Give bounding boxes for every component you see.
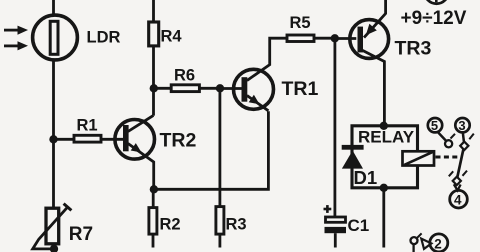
light arrow 2 bbox=[4, 41, 28, 50]
resistor R3 bbox=[216, 88, 224, 247]
resistor R6 bbox=[154, 85, 220, 92]
svg-text:5: 5 bbox=[431, 118, 438, 133]
transistor TR2 bbox=[115, 115, 155, 189]
svg-text:R3: R3 bbox=[226, 215, 247, 233]
node: TR2 emitter rail junction bbox=[150, 185, 158, 193]
terminal 5 bbox=[428, 118, 446, 141]
tick mark bbox=[469, 134, 474, 140]
svg-text:R2: R2 bbox=[160, 215, 181, 233]
svg-text:R7: R7 bbox=[69, 224, 93, 245]
svg-text:TR1: TR1 bbox=[282, 78, 319, 100]
svg-text:R6: R6 bbox=[174, 67, 195, 85]
contact (NC) diamond bbox=[460, 142, 468, 150]
svg-text:R1: R1 bbox=[77, 117, 98, 135]
node: R6/TR1 base/R3 junction bbox=[216, 84, 224, 92]
terminal 2 bbox=[430, 234, 448, 252]
resistor R5 bbox=[287, 35, 335, 42]
light arrow 1 bbox=[4, 26, 28, 35]
LDR bbox=[33, 15, 78, 60]
svg-text:TR2: TR2 bbox=[160, 130, 197, 152]
resistor R7 (trimmer) bbox=[33, 204, 72, 249]
resistor R2 bbox=[149, 189, 157, 247]
svg-text:R4: R4 bbox=[161, 28, 183, 46]
wire: relay bottom down bbox=[382, 188, 385, 248]
resistor R4 bbox=[149, 0, 159, 116]
transistor TR1 bbox=[234, 38, 288, 111]
node: R5/TR3 base/C1 junction bbox=[331, 34, 339, 42]
diode D1 bbox=[342, 145, 364, 169]
svg-text:2: 2 bbox=[434, 236, 442, 251]
tick mark bbox=[449, 171, 453, 176]
wire: supply rail above LDR bbox=[52, 0, 55, 16]
lower contact pivot bbox=[411, 233, 422, 252]
tick mark bbox=[463, 171, 468, 176]
terminal 1 (cut off at top edge) bbox=[425, 0, 449, 4]
wire: junction down to C1 bbox=[333, 38, 336, 217]
wire: emitter rail to TR1 emitter bbox=[154, 111, 269, 189]
svg-text:D1: D1 bbox=[354, 167, 378, 188]
svg-text:TR3: TR3 bbox=[395, 38, 432, 60]
terminal 4 bbox=[450, 190, 468, 208]
resistor R1 bbox=[54, 135, 124, 142]
terminal 3 bbox=[455, 118, 469, 142]
wire: dashed actuator link bbox=[436, 156, 460, 159]
wire: left rail LDR to R7 bbox=[52, 60, 55, 209]
transistor TR3 bbox=[350, 0, 389, 126]
wire: pivot to terminal 4 bbox=[454, 184, 461, 190]
switch arm bbox=[457, 150, 463, 177]
relay coil bbox=[403, 151, 435, 165]
node: left rail / R1 junction bbox=[49, 135, 57, 143]
svg-text:R5: R5 bbox=[290, 14, 311, 32]
svg-text:RELAY: RELAY bbox=[358, 128, 415, 147]
svg-text:C1: C1 bbox=[348, 216, 370, 235]
node: relay bottom junction bbox=[380, 184, 388, 192]
node: R7 bottom junction bbox=[50, 245, 58, 252]
svg-text:+9÷12V: +9÷12V bbox=[401, 8, 467, 29]
lower switch arm arrow bbox=[421, 239, 431, 249]
arm pivot diamond bbox=[453, 177, 461, 185]
svg-text:3: 3 bbox=[458, 118, 465, 133]
relay box bbox=[352, 126, 418, 188]
tick mark bbox=[451, 134, 456, 139]
node: relay top junction bbox=[380, 122, 388, 130]
capacitor C1 bbox=[324, 205, 347, 247]
wire: junction to TR1 base bbox=[220, 87, 242, 90]
wire: junction to TR3 base bbox=[335, 37, 357, 40]
svg-text:4: 4 bbox=[454, 193, 462, 208]
node: R4/R6 junction bbox=[150, 84, 158, 92]
contact pivot (NO) bbox=[445, 140, 452, 147]
svg-text:LDR: LDR bbox=[87, 29, 121, 47]
